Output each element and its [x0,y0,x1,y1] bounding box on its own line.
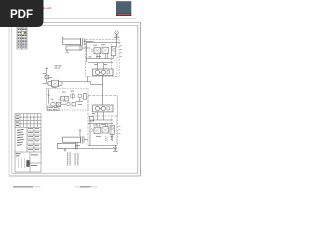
outer drawing frame [9,23,141,177]
lower small pump [51,102,55,106]
title block text marks [16,115,39,168]
small arrow top-left of cylinder [62,37,64,40]
top dash-dot boundary box [86,39,119,76]
svg-text:PDF: PDF [10,9,33,21]
small text above [43,65,62,78]
legend table top-left [17,26,27,50]
middle box internals [48,89,87,107]
wire: return line to tank T2 [75,147,113,149]
cylinder CYL2 [66,46,82,50]
tank breather T1 [86,30,120,47]
wire: return line to bottom manifold right side [117,96,119,117]
PDF badge [0,0,44,27]
connecting lines below valves [96,54,98,59]
inner drawing frame [12,25,138,173]
cylinder CYL1 [63,39,81,44]
middle rows right side [27,130,41,132]
directional valve V2 [102,47,108,53]
horizontal lines upper grid [15,116,41,118]
svg-text:st-edit: st-edit [43,6,51,10]
logo red bar [116,13,131,16]
top text marks [89,44,108,64]
directional valve V1 [94,48,100,54]
wire: pipe jog from valve Y1 output to pump line [88,77,103,85]
relief valve RV1 [111,47,115,56]
cylinders CYL3 CYL4 [57,129,88,149]
directional valves V3 V4 and relief valve RV2 [88,112,114,145]
wire: supply line between pump P1 and pump P2 [102,76,104,106]
check valve CV1 [45,75,49,79]
pump unit P1 (motor-pump group) [93,69,113,76]
wire: dash-dot boundary line between systems [88,95,118,97]
vertical lines upper grid [19,114,21,128]
legend text marks [18,26,27,47]
top valve group inside box [86,42,115,69]
tank breather T2 [113,145,118,151]
header rule [0,17,137,20]
logo square top right [116,1,131,13]
stamp box bottom-left of middle box [47,106,59,111]
bottom dash-dot box [88,116,118,145]
vertical port labels below bottom cylinder [68,153,78,166]
pump unit P2 (motor-pump group) [93,105,113,112]
wire: valve Y1 ports [62,81,91,83]
solenoid valve Y1 [51,80,58,87]
middle dashed box [46,88,88,110]
legend green cell [24,32,27,34]
footer text left [13,186,97,187]
